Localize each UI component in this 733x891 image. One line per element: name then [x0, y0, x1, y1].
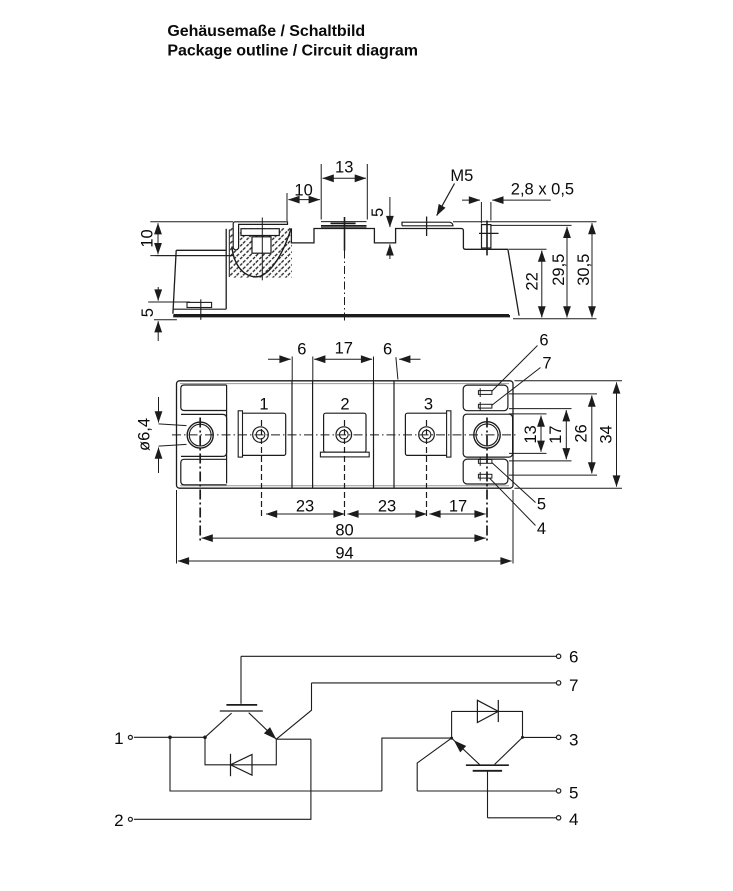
terminal 6	[556, 654, 560, 658]
side view screw head	[252, 237, 271, 253]
dim 10 left	[150, 222, 234, 256]
igbt T2 emitter vertical to diode	[451, 711, 453, 738]
wire to terminal 6	[241, 655, 556, 657]
dim 13 right	[509, 414, 547, 454]
svg-text:Gehäusemaße / Schaltbild: Gehäusemaße / Schaltbild	[167, 23, 365, 40]
leader label 4	[490, 478, 536, 525]
side view M5 flat terminal	[402, 217, 453, 237]
svg-text:10: 10	[294, 182, 312, 200]
side view left top deck	[176, 249, 226, 251]
svg-text:4: 4	[537, 520, 546, 538]
terminal 5	[556, 789, 560, 793]
terminal 3	[556, 735, 560, 739]
wire to terminal 5	[417, 790, 556, 792]
dim dia 6,4	[159, 397, 187, 473]
diode D2 triangle	[477, 700, 498, 722]
top view rib right	[374, 381, 395, 488]
leader label 7	[492, 368, 541, 406]
svg-text:6: 6	[297, 341, 306, 359]
svg-text:17: 17	[547, 426, 565, 444]
top view pin 5	[478, 457, 492, 466]
svg-text:3: 3	[424, 396, 433, 414]
svg-text:2: 2	[340, 396, 349, 414]
svg-text:30,5: 30,5	[575, 254, 593, 286]
side view fast-on pin	[479, 221, 499, 256]
diode D2 wire	[452, 711, 523, 737]
svg-text:M5: M5	[450, 167, 473, 185]
terminal 2	[128, 817, 132, 821]
svg-text:13: 13	[522, 425, 540, 443]
side view clamp bar	[241, 229, 279, 236]
dim 34 right	[515, 381, 623, 488]
top view right mounting hole	[474, 422, 500, 448]
svg-text:17: 17	[449, 498, 467, 516]
M5 leader	[437, 184, 455, 216]
wire to terminal 4	[488, 817, 557, 819]
dim 22	[509, 249, 547, 317]
dim 29,5	[491, 225, 572, 317]
svg-text:5: 5	[537, 496, 546, 514]
top view terminal 1 circles	[253, 427, 269, 443]
dim 17 gap	[314, 357, 373, 382]
svg-text:26: 26	[573, 424, 591, 442]
top view left flange divider	[226, 385, 228, 483]
svg-text:Package outline / Circuit diag: Package outline / Circuit diagram	[167, 42, 418, 59]
side view dim texts	[335, 158, 353, 176]
wire node A down and right to vertical riser	[170, 737, 382, 791]
diode D1 loop wire	[205, 737, 276, 765]
top view terminal centerlines vertical	[262, 420, 427, 517]
svg-text:3: 3	[569, 730, 578, 749]
top view left mounting hole	[187, 422, 213, 448]
igbt T2 gate lead	[487, 771, 489, 818]
side view clamp centerline	[261, 218, 263, 281]
top view terminal 3 tab	[447, 411, 451, 457]
side view recess wall	[173, 229, 229, 309]
svg-text:1: 1	[114, 729, 123, 748]
side view left slope edge	[173, 250, 176, 313]
top view left slot bottom	[181, 459, 227, 485]
leader label 6	[492, 346, 538, 392]
svg-text:ø6,4: ø6,4	[136, 418, 154, 451]
svg-text:5: 5	[569, 784, 578, 803]
wire emitter T1 to aux 7	[276, 683, 311, 739]
dim 23 23 17 chain	[266, 513, 486, 515]
side view small label recess	[187, 299, 212, 320]
igbt T1 emitter diagonal	[249, 713, 277, 740]
svg-text:7: 7	[569, 676, 578, 695]
top view left hole pocket	[181, 414, 227, 456]
igbt T2 collector node dot	[521, 736, 524, 739]
title line 2	[167, 42, 418, 59]
igbt T2 body bar	[466, 764, 509, 766]
svg-text:4: 4	[569, 810, 578, 829]
igbt T1 emitter arrow	[264, 727, 276, 739]
top view terminal 1 tab	[238, 411, 242, 457]
diode D1 cathode bar	[230, 754, 232, 776]
title line 1	[167, 23, 365, 40]
top view rib left	[292, 381, 313, 488]
igbt T2 emitter node dot	[450, 737, 453, 740]
svg-text:6: 6	[383, 341, 392, 359]
dim 6 left rib	[268, 357, 313, 382]
igbt T2 emitter arrow	[454, 740, 466, 752]
igbt T2 gate bar	[473, 770, 502, 772]
top view pin 7	[478, 402, 492, 411]
side view center terminal centerline	[344, 217, 346, 322]
side view mystery inner line	[155, 255, 234, 257]
svg-text:80: 80	[335, 522, 353, 540]
svg-text:5: 5	[369, 208, 387, 217]
igbt T1 gate lead	[240, 656, 242, 704]
top view terminal 3 square	[405, 413, 449, 455]
top view terminal label 2	[340, 396, 349, 414]
igbt T1 body bar	[220, 710, 263, 712]
svg-text:13: 13	[335, 158, 353, 176]
top view horizontal centerline	[172, 434, 518, 436]
dim 22/29,5/30,5 bottom extension	[513, 318, 597, 320]
igbt T2 collector diagonal	[495, 737, 523, 764]
side view step right of clamp	[291, 228, 519, 316]
igbt T2 aux emitter path	[417, 738, 451, 791]
wire terminal 1 to node C1	[134, 736, 205, 738]
node junction dot A	[168, 736, 172, 740]
top view terminal 1 square	[242, 413, 286, 455]
top view terminal 3 circles	[419, 427, 435, 443]
top view pin 6	[478, 388, 492, 397]
top view left slot top	[181, 385, 227, 411]
igbt T1 gate bar	[226, 704, 257, 706]
svg-text:22: 22	[524, 272, 542, 290]
top view terminal label 1	[259, 396, 268, 414]
svg-text:2,8 x 0,5: 2,8 x 0,5	[511, 181, 574, 199]
svg-text:23: 23	[296, 498, 314, 516]
top view terminal 2 circles	[336, 427, 352, 443]
node junction dot C1	[203, 736, 207, 740]
leader label 5	[492, 463, 536, 503]
circuit terminal labels	[114, 729, 123, 748]
wire to terminal 3	[523, 736, 557, 738]
terminal 7	[556, 681, 560, 685]
side view cup curve	[232, 229, 291, 277]
dim 26 right	[509, 394, 597, 475]
svg-text:10: 10	[138, 229, 156, 247]
svg-text:94: 94	[335, 545, 353, 563]
top view right slot top	[463, 385, 508, 411]
dim 13 top	[321, 164, 367, 220]
top view terminal 2 square	[324, 413, 366, 452]
svg-text:23: 23	[378, 498, 396, 516]
top view hole centerlines vertical	[200, 418, 487, 541]
svg-text:6: 6	[569, 647, 578, 666]
svg-text:1: 1	[259, 396, 268, 414]
terminal 1	[128, 735, 132, 739]
side view center terminal plate	[321, 222, 367, 227]
terminal 4	[556, 816, 560, 820]
wire emitter T1 to terminal 2 riser	[276, 738, 311, 740]
diode D1 triangle	[231, 754, 253, 775]
svg-text:6: 6	[539, 332, 548, 350]
dim 5 left	[148, 287, 190, 341]
wire riser up to right emitter row	[382, 738, 452, 791]
side view clamp cap and finger	[233, 222, 287, 250]
igbt T2 emitter diagonal	[452, 738, 481, 765]
svg-text:17: 17	[335, 339, 353, 357]
dim 2,8 x 0,5	[462, 200, 551, 223]
top view right slot bottom	[463, 459, 508, 484]
wire to terminal 7	[312, 682, 557, 684]
svg-text:34: 34	[598, 425, 616, 443]
dim 94	[177, 490, 514, 564]
svg-text:5: 5	[139, 308, 157, 317]
igbt T1 collector diagonal	[205, 713, 232, 737]
top view terminal 2 tab	[320, 452, 369, 457]
dim 10 top	[287, 193, 320, 221]
diode D2 cathode bar	[497, 700, 499, 722]
svg-text:29,5: 29,5	[550, 254, 568, 286]
top view body outline	[177, 381, 514, 488]
top view right hole pocket	[463, 414, 512, 457]
dim 80	[202, 537, 486, 539]
svg-text:2: 2	[114, 811, 123, 830]
top view terminal label 3	[424, 396, 433, 414]
side view baseplate	[173, 315, 510, 317]
top view pin 4	[478, 472, 492, 481]
top view inner contour lines	[180, 384, 509, 486]
wire terminal 2	[134, 739, 311, 819]
svg-text:7: 7	[542, 355, 551, 373]
dim 5 notch	[389, 197, 391, 259]
side view hatch section	[229, 228, 292, 278]
dim 30,5	[453, 222, 597, 318]
dim 6 right rib	[396, 357, 421, 379]
top view dim texts	[297, 341, 306, 359]
dim 17 right	[509, 409, 572, 461]
